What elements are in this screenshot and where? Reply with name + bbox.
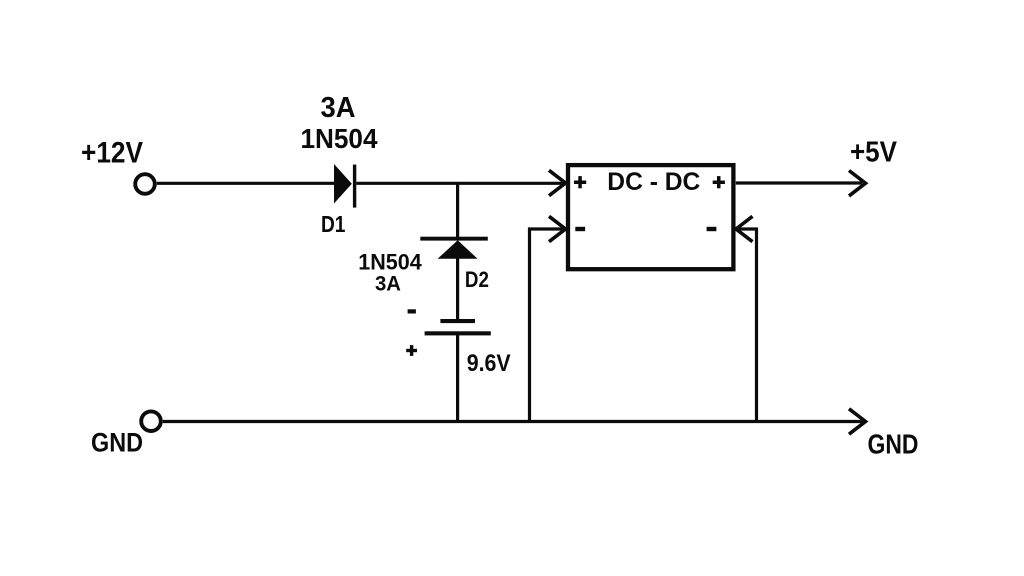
wire from D1 cathode to DC-DC + input arrow	[356, 182, 564, 185]
svg-text:+5V: +5V	[850, 137, 898, 169]
svg-text:DC - DC: DC - DC	[607, 168, 700, 196]
arrow into DC-DC left + input	[549, 170, 566, 195]
node +12V input terminal (open circle)	[135, 174, 155, 194]
battery + polarity mark	[406, 345, 417, 356]
svg-text:+12V: +12V	[81, 136, 143, 169]
wire DC-DC + output to +5V	[736, 181, 862, 184]
battery BT1 9.6V (short bar = -, long bar = +)	[425, 319, 491, 335]
pin + (right output of DC-DC)	[713, 176, 725, 188]
arrow into DC-DC left - input	[549, 216, 566, 241]
wire junction down to diode D2	[456, 183, 459, 238]
svg-text:GND: GND	[91, 428, 143, 458]
wire from ground rail up to DC-DC right - output	[738, 229, 757, 422]
wire from ground rail up to DC-DC left - input	[530, 229, 564, 422]
svg-text:D1: D1	[321, 211, 346, 237]
svg-text:3A: 3A	[375, 272, 401, 296]
pin - (right output of DC-DC)	[707, 227, 717, 231]
svg-text:D2: D2	[465, 267, 489, 292]
svg-text:3A: 3A	[321, 92, 356, 124]
arrow into DC-DC right - output (pointing left)	[736, 216, 753, 241]
arrow +5V output	[849, 171, 866, 196]
wire from D2 anode down to battery	[456, 259, 459, 321]
svg-text:1N504: 1N504	[358, 249, 422, 274]
arrow ground rail output	[849, 409, 866, 434]
battery - polarity mark	[408, 309, 416, 313]
wire ground rail	[163, 420, 863, 423]
op-amp U1 DC-DC converter box	[568, 165, 733, 269]
pin - (left input of DC-DC)	[575, 227, 585, 231]
node GND input terminal (open circle)	[141, 411, 161, 431]
svg-text:1N504: 1N504	[301, 123, 379, 154]
wire from battery + down to ground rail	[456, 335, 459, 422]
svg-text:GND: GND	[868, 428, 919, 459]
wire from +12V terminal to diode D1 anode	[157, 182, 335, 185]
pin + (left input of DC-DC)	[574, 176, 586, 188]
svg-text:9.6V: 9.6V	[467, 350, 511, 377]
diode D2 (shunt, pointing up, cathode bar on top)	[420, 237, 488, 259]
diode D1 (series, pointing right)	[334, 164, 356, 208]
